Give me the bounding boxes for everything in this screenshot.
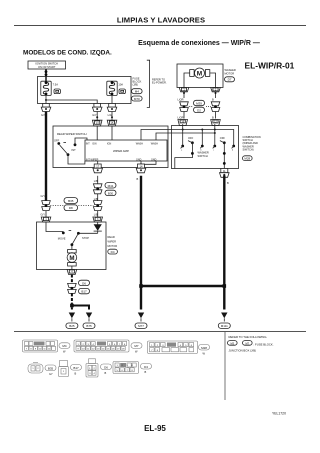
svg-text:10A: 10A <box>118 82 123 86</box>
svg-text:L/OR: L/OR <box>178 97 184 101</box>
connector terminal 1 below fuse (G/Y) <box>41 104 51 117</box>
wire INT WIPER output <box>97 161 99 170</box>
svg-text:L/B: L/B <box>94 179 98 183</box>
inline connector pair G/Y column <box>41 201 51 217</box>
svg-text:L/B: L/B <box>94 197 98 201</box>
svg-text:REFER TO THE FOLLOWING.: REFER TO THE FOLLOWING. <box>229 335 268 339</box>
svg-text:B: B <box>137 177 139 181</box>
connector 16 into combination switch <box>178 120 188 126</box>
svg-text:G/Y: G/Y <box>92 113 97 117</box>
svg-text:B35: B35 <box>48 366 54 370</box>
svg-text:B: B <box>145 370 147 374</box>
connector view M4 grid <box>23 340 71 354</box>
connector 14 below amp unit <box>136 164 146 173</box>
thick wire G/Y down left side <box>41 112 47 202</box>
fuse F1 7.5A <box>41 81 58 95</box>
wire GND1 GND2 join <box>140 161 156 170</box>
svg-text:B: B <box>212 97 214 101</box>
connector face views <box>23 340 210 377</box>
svg-text:B17: B17 <box>81 290 87 294</box>
washer motor connector id D7 <box>225 77 235 82</box>
rear wiper switch unit box <box>53 126 168 168</box>
fuse block label <box>133 77 142 87</box>
connector terminal 2 below fuse (G/Y) <box>92 104 102 117</box>
rear wiper motor M <box>67 250 77 270</box>
washer motor M <box>190 68 210 78</box>
washer motor internal wires <box>184 73 216 88</box>
svg-text:GND: GND <box>151 158 157 161</box>
wiper switch pivot wire <box>223 143 226 169</box>
svg-text:STOP: STOP <box>82 236 89 240</box>
svg-text:GY: GY <box>49 372 53 376</box>
svg-text:c: c <box>213 150 214 152</box>
svg-text:Esquema de conexiones — WIP/R: Esquema de conexiones — WIP/R — <box>138 40 260 47</box>
ground symbol M111 <box>218 313 230 329</box>
thick ground wire from conn11 <box>223 175 230 309</box>
svg-text:SWITCH): SWITCH) <box>243 148 254 152</box>
rear wiper motor label <box>108 235 118 248</box>
wiper amp box <box>85 140 167 161</box>
svg-text:EL-95: EL-95 <box>144 424 166 433</box>
diode in rear wiper motor <box>94 222 102 233</box>
svg-text:B17: B17 <box>73 366 79 370</box>
connector terminal 3 below fuse (L/G) <box>107 104 117 117</box>
connector view D6 <box>86 359 112 377</box>
wiper switch contacts <box>213 136 235 148</box>
svg-text:JUNCTION BOX (J/B): JUNCTION BOX (J/B) <box>229 349 257 353</box>
svg-text:YEL1720: YEL1720 <box>272 412 286 416</box>
svg-text:B25: B25 <box>69 324 75 328</box>
connector view D4 grid <box>113 362 152 375</box>
svg-text:D4: D4 <box>144 365 148 369</box>
svg-text:: FUSE BLOCK.: : FUSE BLOCK. <box>254 342 274 346</box>
ground symbol M77 <box>135 313 147 329</box>
svg-text:M: M <box>69 255 74 262</box>
svg-text:IGN: IGN <box>107 142 112 145</box>
wire WASH1 to combination switch <box>141 129 234 147</box>
divider line <box>224 332 226 401</box>
connector 13 into wiper amp unit <box>92 120 102 126</box>
svg-text:MOVE: MOVE <box>58 236 66 240</box>
fuse block connector id M4 <box>132 89 143 94</box>
wire fuse F1 output split <box>45 95 112 104</box>
svg-text:SWITCH: SWITCH <box>198 154 208 158</box>
connector view B17 <box>59 361 82 377</box>
svg-text:M111: M111 <box>221 324 228 328</box>
inline connector pair L/B upper <box>93 184 102 194</box>
svg-text:B75: B75 <box>86 324 92 328</box>
svg-text:D2: D2 <box>197 108 201 112</box>
connector into rear wiper motor left <box>41 211 51 222</box>
connector view M28 grid <box>148 341 210 355</box>
svg-text:INT WIPER: INT WIPER <box>86 158 99 161</box>
svg-text:MOTOR: MOTOR <box>225 71 235 75</box>
wire WASH2 to combination switch <box>156 132 216 140</box>
svg-text:D4: D4 <box>111 250 115 254</box>
svg-text:REAR WIPER SWITCH: REAR WIPER SWITCH <box>57 132 87 136</box>
wire fuse T2 to connector 13 <box>96 112 98 121</box>
svg-text:L/OR: L/OR <box>178 115 184 119</box>
connector into rear wiper motor right <box>93 211 103 222</box>
svg-text:M4: M4 <box>62 344 66 348</box>
motor park switch contacts MOVE STOP <box>46 222 98 250</box>
svg-text:M39: M39 <box>196 102 202 106</box>
svg-text:MODELOS DE COND. IZQDA.: MODELOS DE COND. IZQDA. <box>23 49 112 56</box>
svg-text:M: M <box>197 71 202 78</box>
motor pin 4 below box <box>67 270 77 275</box>
washer switch label <box>198 151 209 158</box>
wire lineA drop to contact <box>201 130 203 147</box>
wire IGN1 <box>96 126 98 140</box>
connector view B35 <box>28 363 56 376</box>
note connector id M3 <box>228 341 238 346</box>
fuse block J/B box <box>38 77 132 104</box>
washer motor box <box>177 64 223 88</box>
rear wiper motor connector id D4 <box>108 249 118 254</box>
svg-text:M77: M77 <box>138 324 144 328</box>
svg-text:B: B <box>105 371 107 375</box>
svg-text:LIMPIAS Y LAVADORES: LIMPIAS Y LAVADORES <box>117 15 205 24</box>
svg-text:INT: INT <box>86 142 90 145</box>
harness connector ids M39 D2 <box>189 100 211 112</box>
wiper amp terminal labels <box>86 142 158 161</box>
svg-text:B: B <box>75 371 77 375</box>
note connector id M7 <box>243 341 253 346</box>
fuse F2 10A <box>107 81 123 95</box>
fuse block connector id M70 <box>132 96 143 101</box>
wire fuse T3 to connector 15 <box>111 112 113 121</box>
separator rule above connector views <box>14 331 306 333</box>
combination switch connector id M28 <box>243 156 253 161</box>
svg-text:B: B <box>212 115 214 119</box>
refer to the following note <box>229 335 274 352</box>
wire conn16 to washer sw contact <box>182 124 184 146</box>
svg-text:D7: D7 <box>228 78 232 82</box>
svg-text:OFF: OFF <box>220 136 226 140</box>
wire ignition to fuse block <box>45 69 48 82</box>
harness ids M41 B30 <box>105 183 116 196</box>
svg-text:WASH: WASH <box>151 142 158 145</box>
svg-text:M7: M7 <box>134 344 138 348</box>
svg-text:EL-WIP/R-01: EL-WIP/R-01 <box>245 61 295 71</box>
harness ids D6 B17 <box>79 280 90 294</box>
svg-text:B35: B35 <box>68 199 74 203</box>
washer switch pivot wire <box>175 143 194 169</box>
washer motor pin 2 <box>211 88 221 102</box>
svg-text:OFF: OFF <box>54 139 60 143</box>
combination switch label <box>243 135 261 152</box>
washer motor label <box>225 68 236 75</box>
thick ground wire from conn14 <box>137 176 143 310</box>
wire B motor to connector <box>71 275 73 284</box>
svg-text:(J/B): (J/B) <box>133 83 139 87</box>
svg-text:GND: GND <box>136 158 142 161</box>
wire L/B from conn17 down <box>94 176 98 184</box>
fuse F2 connector icon <box>119 89 125 94</box>
rear wiper switch contacts <box>54 139 76 156</box>
svg-text:G/Y: G/Y <box>41 212 46 216</box>
svg-text:D8: D8 <box>69 206 73 210</box>
svg-text:D6: D6 <box>82 281 86 285</box>
svg-text:M70: M70 <box>134 97 140 101</box>
ground symbol B75 <box>83 313 95 329</box>
svg-text:ON OR START: ON OR START <box>38 65 56 69</box>
wire B to ground split <box>70 293 89 309</box>
harness ids B35 D8 between columns <box>50 198 93 211</box>
svg-text:M3: M3 <box>230 341 234 345</box>
washer switch contacts <box>181 136 204 148</box>
wire switch pivot to output node <box>68 155 85 164</box>
svg-text:7.5A: 7.5A <box>53 82 59 86</box>
ground bus wire <box>141 285 224 287</box>
svg-text:INT: INT <box>72 148 77 152</box>
svg-text:OFF: OFF <box>188 136 194 140</box>
svg-text:REAR: REAR <box>108 235 115 239</box>
inline connector pair L/B lower <box>93 201 102 217</box>
svg-text:IGN: IGN <box>92 142 97 145</box>
terminal letters comb switch <box>181 150 233 152</box>
svg-text:EL-POWER.: EL-POWER. <box>152 81 167 85</box>
wire L/B mid <box>94 194 98 201</box>
ground symbol B25 <box>66 313 78 329</box>
svg-text:B30: B30 <box>108 191 114 195</box>
fuse F1 connector icon <box>54 89 60 94</box>
connector view M7 grid <box>74 340 142 354</box>
inline connector pair washer B <box>211 102 220 120</box>
svg-text:M28: M28 <box>244 157 250 161</box>
rear wiper motor box <box>37 222 107 270</box>
svg-text:M4: M4 <box>135 90 139 94</box>
svg-text:M7: M7 <box>245 341 249 345</box>
svg-text:MOTOR: MOTOR <box>108 244 118 248</box>
connector 15 into wiper amp unit <box>107 120 117 126</box>
connector 12 into combination switch <box>211 120 221 126</box>
combination switch box <box>172 126 239 169</box>
svg-text:B: B <box>227 181 229 185</box>
svg-text:D6: D6 <box>104 365 108 369</box>
refer to EL-POWER bracket <box>147 60 167 107</box>
svg-text:d: d <box>232 150 233 152</box>
svg-text:WIPER: WIPER <box>108 240 117 244</box>
svg-text:M28: M28 <box>201 346 207 350</box>
wire INT contact to amp <box>75 138 87 145</box>
svg-text:M41: M41 <box>108 184 114 188</box>
header rule <box>14 25 306 27</box>
svg-text:G/Y: G/Y <box>41 194 46 198</box>
washer motor pin 1 <box>178 88 189 102</box>
wire IGN2 <box>111 126 113 140</box>
connector 17 below amp unit <box>93 164 103 173</box>
svg-text:WIPER AMP.: WIPER AMP. <box>113 149 129 153</box>
inline connector pair washer L/OR <box>178 102 189 120</box>
connector 11 below combination switch <box>220 169 230 178</box>
inline connector pair motor ground <box>68 283 77 293</box>
wire conn12 to wiper sw contact <box>214 124 216 146</box>
svg-text:WASH: WASH <box>136 142 143 145</box>
svg-text:L/G: L/G <box>108 113 112 117</box>
ignition switch label box <box>28 61 66 69</box>
